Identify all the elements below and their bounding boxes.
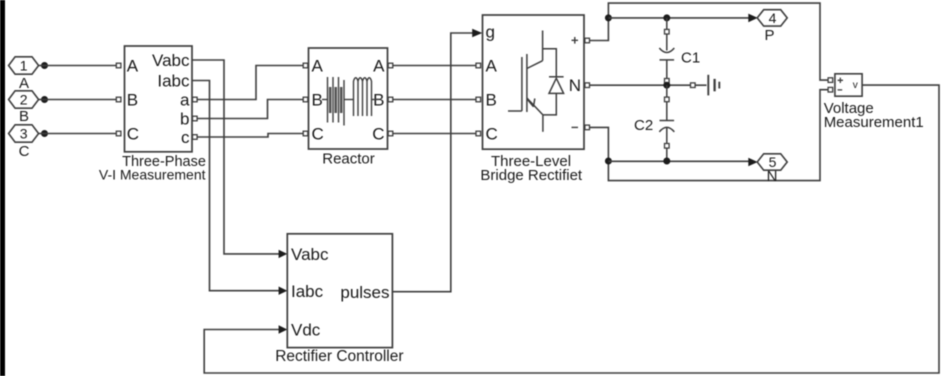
C2 top port square (665, 97, 670, 102)
port square bridge input A (476, 63, 481, 68)
svg-text:C: C (127, 125, 139, 144)
arrow into bridge g (472, 29, 482, 37)
svg-text:C1: C1 (681, 50, 700, 67)
port square bridge plus (585, 38, 590, 43)
diode bottom lead (543, 93, 556, 115)
arrow into port 4 (748, 14, 758, 23)
pin label minus (572, 126, 579, 128)
svg-text:A: A (486, 57, 498, 76)
C2 bottom port square (665, 144, 670, 149)
diode top lead (543, 49, 557, 77)
port square reactor input B (303, 97, 308, 102)
port square ground (691, 83, 696, 88)
output port 4 hexagon (757, 10, 787, 26)
C1 top lead (666, 34, 668, 51)
collector stub (542, 31, 544, 61)
svg-text:Bridge Rectifiet: Bridge Rectifiet (480, 167, 583, 184)
port square bridge input B (476, 97, 481, 102)
svg-text:A: A (127, 57, 139, 76)
inductor winding left (322, 77, 354, 126)
ground symbol (695, 75, 719, 96)
transistor IGBT icon (508, 31, 543, 132)
C2 top lead (666, 102, 668, 121)
emitter diagonal (527, 98, 543, 115)
wire VM output to controller Vdc (204, 85, 939, 373)
VM plus sign (838, 78, 843, 83)
diode triangle (549, 78, 564, 93)
C1 bottom port square (665, 79, 670, 84)
C2 straight plate (660, 120, 675, 122)
wire a to reactor A (197, 66, 303, 100)
wire bridge minus to DC- rail (590, 90, 829, 181)
C1 top port square (665, 29, 670, 34)
wire Vabc to controller (192, 60, 279, 254)
arrow Vdc into controller (279, 325, 288, 333)
C1 straight plate (660, 59, 675, 61)
svg-text:4: 4 (769, 10, 777, 26)
svg-text:Vdc: Vdc (291, 321, 321, 340)
wire bridge plus to DC+ rail (590, 3, 829, 80)
junction dot DC+ (605, 14, 612, 21)
svg-text:C: C (312, 125, 324, 144)
port square reactor output C (388, 131, 393, 136)
svg-text:B: B (19, 108, 29, 125)
collector diagonal (527, 61, 543, 69)
port square reactor output A (388, 63, 393, 68)
wire pulses to bridge g (392, 33, 473, 292)
C2 curved plate (659, 127, 674, 132)
block Rectifier Controller (287, 234, 392, 348)
svg-text:c: c (181, 128, 190, 147)
svg-text:P: P (764, 27, 774, 44)
left black border bar (0, 0, 5, 376)
wire reactor B to bridge B (393, 99, 476, 101)
port square V-I output a (193, 97, 198, 102)
svg-text:Reactor: Reactor (322, 150, 375, 167)
gate lead (508, 110, 522, 112)
C1 top stub (666, 18, 668, 29)
capacitor C2 (659, 85, 674, 161)
svg-text:A: A (19, 75, 29, 92)
wire DC- to port 5 (608, 160, 749, 162)
port square bridge N (585, 83, 590, 88)
C1 curved plate (659, 48, 674, 53)
port square V-I output b (193, 116, 198, 121)
junction dot DC mid (663, 82, 670, 89)
junction dot port 3 (41, 130, 48, 137)
port square V-I input B (116, 97, 121, 102)
svg-text:Iabc: Iabc (157, 72, 190, 91)
C2 bottom stub (666, 148, 668, 161)
wire port3 to V-I C (39, 133, 117, 135)
block Three-Phase V-I Measurement (125, 46, 193, 152)
pin label plus (572, 37, 579, 44)
svg-text:2: 2 (20, 92, 28, 108)
input port 1 hexagon (9, 57, 39, 74)
port square VM plus (828, 78, 833, 83)
diode cathode bar (549, 76, 564, 78)
input port 2 hexagon (9, 91, 39, 108)
svg-text:a: a (180, 91, 190, 110)
block Voltage Measurement1 (835, 74, 862, 96)
svg-text:3: 3 (20, 126, 28, 142)
junction dot C1 top (663, 14, 670, 21)
svg-text:Measurement1: Measurement1 (824, 114, 924, 131)
gate bar right (526, 54, 528, 112)
VM minus sign (838, 89, 843, 91)
port square reactor input A (303, 63, 308, 68)
arrow Iabc into controller (279, 287, 288, 295)
svg-text:Iabc: Iabc (291, 282, 324, 301)
svg-text:B: B (312, 91, 323, 110)
wire Iabc to controller (192, 81, 279, 291)
arrow into port 5 (748, 158, 758, 167)
svg-text:Vabc: Vabc (152, 51, 190, 70)
svg-text:C: C (486, 125, 498, 144)
svg-text:C: C (19, 143, 30, 160)
svg-text:C2: C2 (634, 117, 653, 134)
junction dot port 1 (41, 62, 48, 69)
arrow Vabc into controller (279, 250, 288, 258)
wire bridge N to ground (590, 84, 691, 86)
junction dot port 2 (41, 96, 48, 103)
svg-text:Rectifier Controller: Rectifier Controller (275, 348, 403, 365)
C2 bottom lead (666, 128, 668, 143)
port square V-I output c (193, 135, 198, 140)
emitter stub (542, 115, 544, 132)
junction dot DC- (605, 158, 612, 165)
C1 bottom stub (666, 83, 668, 85)
inductor coil right (354, 78, 379, 116)
svg-text:V-I Measurement: V-I Measurement (99, 166, 206, 182)
port square bridge minus (585, 125, 590, 130)
port square bridge input C (476, 131, 481, 136)
wire reactor C to bridge C (393, 133, 476, 135)
svg-text:C: C (372, 125, 384, 144)
svg-text:g: g (486, 22, 495, 41)
svg-text:pulses: pulses (340, 283, 389, 302)
wire c to reactor C (197, 134, 303, 138)
gate bar left (521, 57, 523, 111)
emitter arrow flick (528, 99, 535, 107)
block Three-Level Bridge Rectifier (483, 15, 585, 149)
svg-text:v: v (853, 80, 858, 91)
wire b to reactor B (197, 100, 303, 119)
wire reactor A to bridge A (393, 65, 476, 67)
svg-text:b: b (180, 110, 189, 129)
port square V-I input C (116, 131, 121, 136)
svg-text:N: N (569, 76, 581, 95)
wire port1 to V-I A (39, 65, 117, 67)
C2 top stub (666, 85, 668, 97)
input port 3 hexagon (9, 125, 39, 142)
capacitor C1 (659, 18, 674, 85)
port square reactor output B (388, 97, 393, 102)
port square V-I input A (116, 63, 121, 68)
output port 5 hexagon (757, 154, 787, 170)
svg-text:B: B (127, 91, 138, 110)
port square reactor input C (303, 131, 308, 136)
svg-text:1: 1 (20, 58, 28, 74)
svg-text:A: A (312, 57, 324, 76)
svg-text:A: A (373, 57, 385, 76)
C1 bottom lead (666, 60, 668, 79)
port square VM minus (828, 87, 833, 92)
svg-text:B: B (486, 91, 497, 110)
block Reactor (309, 48, 388, 149)
wire DC+ to port 4 (608, 17, 750, 19)
junction dot C2 bottom (663, 158, 670, 165)
svg-text:N: N (767, 168, 778, 185)
svg-text:Vabc: Vabc (291, 245, 329, 264)
diode D icon (543, 49, 564, 115)
wire port2 to V-I B (39, 99, 117, 101)
